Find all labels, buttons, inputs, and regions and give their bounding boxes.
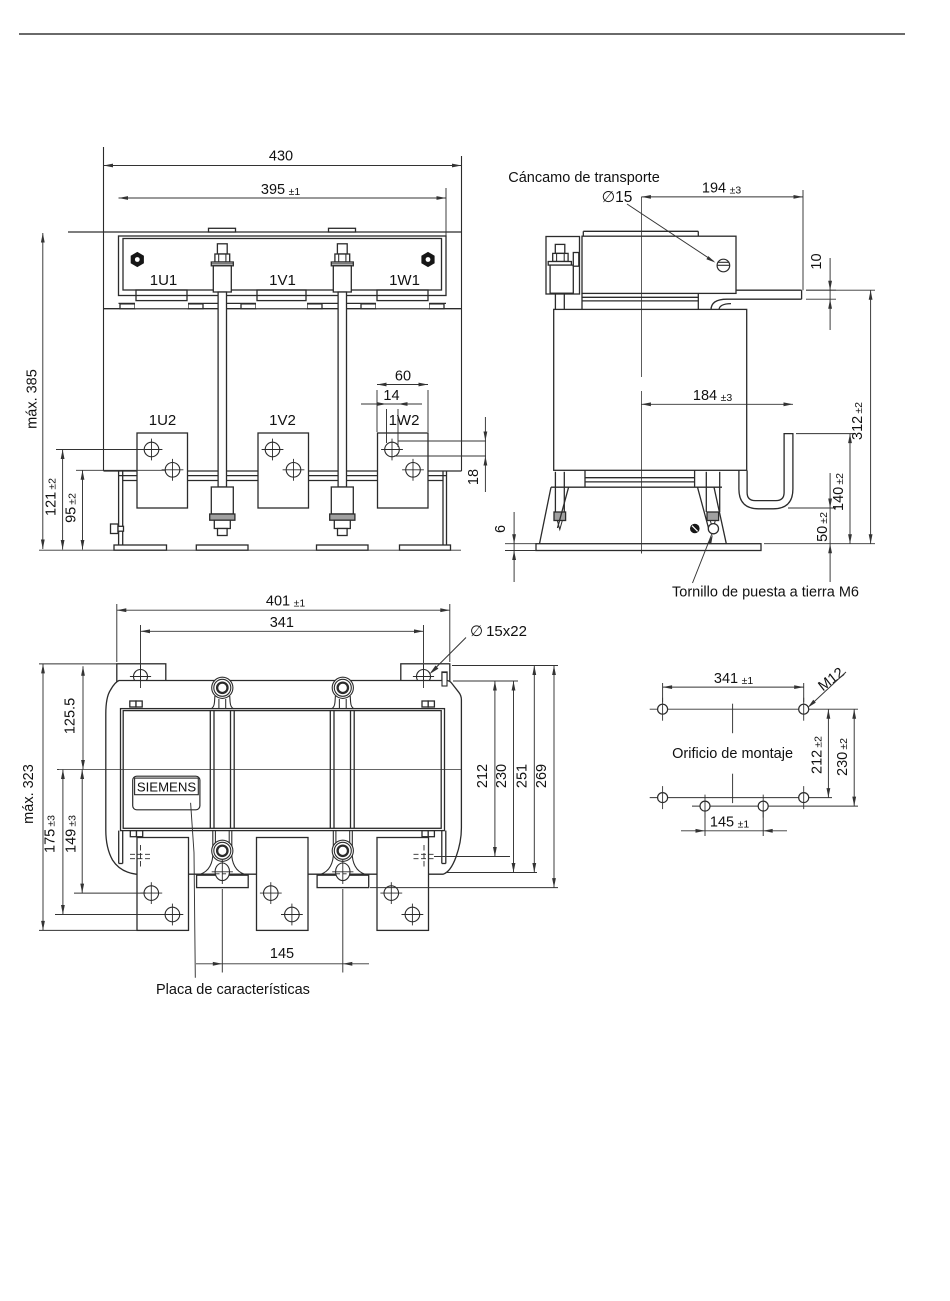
ground baseline bbox=[39, 549, 461, 551]
mount hole top-left bbox=[658, 698, 668, 721]
stud bolt 1 (between 1U1/1V1) bbox=[210, 244, 235, 536]
bracket top-right slot bbox=[413, 665, 434, 690]
mount dim 230 bbox=[835, 709, 856, 806]
svg-text:SIEMENS: SIEMENS bbox=[137, 780, 197, 795]
svg-text:269: 269 bbox=[534, 764, 550, 788]
side centerline bbox=[640, 197, 642, 554]
dim 395 extension right bbox=[445, 188, 447, 236]
label 1U2 bbox=[149, 412, 177, 429]
M12 leader bbox=[808, 672, 846, 708]
svg-text:±1: ±1 bbox=[289, 186, 301, 198]
svg-text:±1: ±1 bbox=[738, 819, 750, 831]
dim 10 bbox=[809, 253, 832, 330]
hex nut right bbox=[421, 252, 434, 267]
right clamp bracket bbox=[443, 471, 447, 545]
plate 1V2 hole 2 bbox=[283, 459, 305, 481]
terminal box bbox=[119, 236, 447, 296]
svg-text:∅15: ∅15 bbox=[602, 189, 633, 206]
clamp bolt top 2 bbox=[332, 677, 354, 708]
clamp side plate right (plan) bbox=[442, 831, 446, 864]
svg-text:Orificio de montaje: Orificio de montaje bbox=[672, 746, 793, 762]
side bottom spacer plate bbox=[585, 470, 695, 487]
svg-text:50 ±2: 50 ±2 bbox=[815, 512, 831, 542]
svg-text:121 ±2: 121 ±2 bbox=[44, 478, 60, 516]
side tie rods left bbox=[555, 294, 564, 512]
frame corner bolt top-right bbox=[422, 701, 434, 707]
side top raised strip bbox=[583, 231, 698, 236]
plate 1W2 hole 1 bbox=[381, 439, 403, 461]
dim max 323 bbox=[21, 664, 45, 931]
foot 3 bbox=[317, 545, 369, 550]
plan plate 1W2 hole 2 bbox=[402, 904, 424, 926]
label 1U1 bbox=[150, 272, 178, 289]
svg-text:125.5: 125.5 bbox=[63, 698, 79, 734]
body bottom line 2 bbox=[119, 475, 447, 477]
svg-text:1U2: 1U2 bbox=[149, 412, 177, 429]
svg-text:±1: ±1 bbox=[742, 675, 754, 687]
terminal plate 1V2 bbox=[258, 433, 309, 508]
label 1V1 bbox=[269, 272, 296, 289]
front top tab 2 bbox=[329, 228, 356, 232]
dim 230 plan bbox=[494, 681, 515, 873]
dim 125.5 bbox=[63, 666, 85, 769]
ext bracket top left bbox=[39, 663, 117, 665]
plan terminal plate 1U2 bbox=[137, 838, 189, 931]
side washer left bbox=[554, 512, 566, 530]
mount dim 341 bbox=[663, 671, 804, 689]
dim 140 ext bbox=[796, 433, 854, 435]
dim 145 ext bbox=[222, 889, 342, 973]
svg-text:Tornillo de puesta a tierra M6: Tornillo de puesta a tierra M6 bbox=[672, 585, 859, 601]
mount hole bottom-right bbox=[799, 786, 809, 809]
placa label bbox=[156, 982, 310, 998]
side coil body bbox=[554, 309, 747, 470]
plate 1V2 hole 1 bbox=[262, 439, 284, 461]
foot 2 bbox=[196, 545, 248, 550]
foot 4 bbox=[400, 545, 451, 550]
dim 401 ext bbox=[117, 604, 450, 662]
cancamo label bbox=[508, 170, 660, 186]
side stud nut bbox=[553, 253, 568, 261]
side stud cylinder bbox=[550, 265, 573, 293]
svg-text:145: 145 bbox=[270, 946, 294, 962]
dim 212 plan bbox=[475, 681, 497, 857]
slot leader bbox=[429, 638, 466, 675]
left clamp bracket bbox=[119, 471, 123, 545]
shelf line bbox=[119, 302, 447, 304]
side top spacer plate bbox=[582, 293, 698, 309]
mount dim 145 bbox=[681, 815, 787, 833]
bracket top-right tab bbox=[442, 672, 447, 681]
svg-text:140 ±2: 140 ±2 bbox=[831, 473, 847, 511]
mount hole middle-left bbox=[700, 795, 710, 818]
dim 60 bbox=[377, 369, 428, 387]
side top block bbox=[582, 236, 736, 293]
dim 121 bbox=[44, 450, 65, 550]
hidden slot bottom-right bbox=[414, 845, 435, 868]
dim max 385 bbox=[25, 233, 45, 549]
leader plan hole row 1 bbox=[74, 892, 146, 894]
ext baseline right bbox=[764, 543, 875, 545]
hidden slot bottom-left bbox=[130, 845, 151, 868]
ext right 230/251 bottom bbox=[446, 872, 537, 874]
frame outer bbox=[121, 709, 445, 831]
leader 18 top bbox=[398, 440, 486, 442]
dim 430 extension left bbox=[103, 147, 105, 471]
svg-text:10: 10 bbox=[809, 253, 825, 269]
svg-text:194: 194 bbox=[702, 181, 726, 197]
dim 50 bbox=[815, 473, 832, 582]
leader plan hole row 2 bbox=[55, 914, 164, 916]
dim 430 extension right bbox=[461, 156, 463, 471]
svg-text:212 ±2: 212 ±2 bbox=[810, 736, 826, 774]
mount top line bbox=[650, 708, 858, 710]
coil midline bbox=[59, 769, 462, 771]
mount dim 212 bbox=[810, 709, 831, 797]
placa leader bbox=[191, 803, 196, 978]
ext right 269 bottom bbox=[370, 887, 558, 889]
dim 312 bbox=[850, 290, 873, 544]
slot label bbox=[470, 623, 527, 640]
channel strip right bbox=[330, 711, 354, 829]
bracket top-right bbox=[401, 664, 450, 682]
svg-text:6: 6 bbox=[493, 525, 509, 533]
label 1W1 bbox=[389, 272, 420, 289]
label 1V2 bbox=[269, 412, 296, 429]
terminal strip 1U1 bbox=[120, 290, 203, 309]
dim 50 ext bbox=[788, 507, 836, 509]
svg-text:341: 341 bbox=[270, 615, 294, 631]
ext right 212/230 top bbox=[453, 680, 518, 682]
plan plate 1U2 hole 2 bbox=[162, 904, 184, 926]
clamp bolt top 1 bbox=[211, 677, 233, 708]
terminal plate 1U2 bbox=[137, 433, 188, 508]
svg-text:Cáncamo de transporte: Cáncamo de transporte bbox=[508, 170, 660, 186]
dim 60 ext bbox=[377, 390, 428, 432]
svg-text:230: 230 bbox=[494, 764, 510, 788]
frame inner bbox=[123, 711, 441, 829]
side washer right bbox=[707, 512, 719, 530]
svg-text:máx. 323: máx. 323 bbox=[21, 764, 37, 824]
svg-text:341: 341 bbox=[714, 671, 738, 687]
svg-text:∅ 15x22: ∅ 15x22 bbox=[470, 623, 527, 640]
body bottom line 3 bbox=[123, 480, 443, 482]
top busbar bbox=[711, 290, 802, 310]
mount hole bottom-left bbox=[658, 786, 668, 809]
ground screw filled bbox=[690, 524, 700, 534]
frame corner bolt bottom-left bbox=[130, 831, 142, 837]
ext right 251/269 top bbox=[452, 665, 558, 667]
dim 194 bbox=[641, 181, 803, 199]
leader hole row 1 bbox=[56, 449, 145, 451]
dim 401 bbox=[117, 594, 450, 613]
dim 140 bbox=[831, 434, 852, 544]
dim 18 bbox=[466, 417, 487, 492]
svg-text:18: 18 bbox=[466, 469, 482, 485]
mount dim 341 ext bbox=[663, 683, 804, 702]
terminal strip 1W1 bbox=[361, 290, 444, 309]
dim 10 ext bbox=[806, 290, 836, 299]
dim 341 bbox=[141, 615, 424, 633]
svg-text:230 ±2: 230 ±2 bbox=[835, 738, 851, 776]
plan terminal plate 1W2 bbox=[377, 838, 429, 931]
terminal plate 1W2 bbox=[378, 433, 429, 508]
cancamo leader bbox=[627, 204, 716, 263]
clamp bolt bottom 1 bbox=[197, 831, 249, 888]
svg-text:14: 14 bbox=[383, 388, 399, 404]
plan plate 1V2 hole 1 bbox=[260, 882, 282, 904]
frame corner bolt bottom-right bbox=[422, 831, 434, 837]
dim 175 bbox=[43, 770, 65, 915]
ref line left bbox=[57, 769, 59, 771]
svg-text:1W2: 1W2 bbox=[389, 412, 420, 429]
dim 95 bbox=[64, 470, 85, 549]
bracket tab redraw bbox=[442, 673, 447, 687]
side stud flange bbox=[548, 262, 571, 266]
plate 1U2 hole 1 bbox=[141, 439, 163, 461]
svg-text:60: 60 bbox=[395, 369, 411, 385]
dim 145 bbox=[196, 946, 369, 966]
leader hole row 2 bbox=[76, 469, 166, 471]
label 1W2 bbox=[389, 412, 420, 429]
dim 251 plan bbox=[515, 666, 537, 873]
plate 1U2 hole 2 bbox=[162, 459, 184, 481]
side tie rods right bbox=[706, 472, 719, 512]
dim 6 bbox=[493, 512, 516, 582]
svg-text:95 ±2: 95 ±2 bbox=[64, 493, 80, 523]
svg-text:máx. 385: máx. 385 bbox=[25, 369, 41, 429]
dim 184 bbox=[641, 388, 793, 406]
top rule bbox=[19, 33, 905, 35]
front top plate line bbox=[68, 231, 462, 233]
svg-text:1U1: 1U1 bbox=[150, 272, 178, 289]
main body outline bbox=[104, 309, 462, 471]
channel strip left bbox=[210, 711, 234, 829]
bracket slot ticks left bbox=[130, 665, 151, 689]
bracket slot ticks right bbox=[413, 665, 434, 689]
frame corner bolt top-left bbox=[130, 701, 142, 707]
side base plate bbox=[536, 544, 761, 551]
clamp bolt bottom 2 bbox=[317, 831, 369, 888]
dim 269 plan bbox=[534, 666, 556, 888]
shell outline bbox=[106, 681, 462, 875]
centerline through base bbox=[640, 544, 642, 554]
earth screw side bbox=[111, 524, 124, 534]
svg-text:145: 145 bbox=[710, 815, 734, 831]
svg-text:1V2: 1V2 bbox=[269, 412, 296, 429]
side stud clip bbox=[573, 253, 579, 267]
stud bolt 2 (between 1V1/1W1) bbox=[330, 244, 355, 536]
mount center tick bottom bbox=[732, 774, 734, 803]
svg-text:149 ±3: 149 ±3 bbox=[64, 815, 80, 853]
dim max323 bottom ext bbox=[39, 929, 137, 931]
svg-text:430: 430 bbox=[269, 149, 293, 165]
svg-text:401: 401 bbox=[266, 594, 290, 610]
bracket top-left slot bbox=[130, 665, 151, 690]
svg-text:Placa de características: Placa de características bbox=[156, 982, 310, 998]
hex nut left bbox=[131, 252, 144, 267]
dim 6 ext bbox=[505, 544, 536, 551]
svg-text:±1: ±1 bbox=[294, 598, 306, 610]
svg-text:395: 395 bbox=[261, 182, 285, 198]
tornillo leader bbox=[693, 534, 713, 583]
side stud square bbox=[555, 244, 565, 253]
dim 395 bbox=[119, 182, 447, 200]
siemens plate bbox=[133, 776, 200, 810]
dim 194 ext bbox=[802, 190, 804, 290]
svg-text:184: 184 bbox=[693, 388, 717, 404]
mount bottom line bbox=[650, 797, 832, 799]
bracket top-left bbox=[117, 664, 166, 682]
svg-text:175 ±3: 175 ±3 bbox=[43, 815, 59, 853]
dim 430 bbox=[104, 149, 462, 168]
front top tab 1 bbox=[209, 228, 236, 232]
svg-text:251: 251 bbox=[515, 764, 531, 788]
svg-text:1V1: 1V1 bbox=[269, 272, 296, 289]
svg-text:±3: ±3 bbox=[730, 185, 742, 197]
svg-text:±3: ±3 bbox=[721, 392, 733, 404]
svg-text:312 ±2: 312 ±2 bbox=[850, 402, 866, 440]
mount center tick top bbox=[732, 704, 734, 734]
cancamo diameter label bbox=[602, 189, 633, 206]
svg-text:212: 212 bbox=[475, 764, 491, 788]
mount middle line bbox=[692, 805, 858, 807]
leader 18 bottom bbox=[394, 455, 486, 457]
eyebolt head bbox=[717, 259, 730, 272]
plan plate 1W2 hole 1 bbox=[380, 882, 402, 904]
ground screw open bbox=[708, 524, 718, 534]
plan plate 1V2 hole 2 bbox=[281, 904, 303, 926]
dim 341 ext bbox=[141, 625, 424, 665]
dim 149 bbox=[64, 770, 85, 894]
mount dim 145 ext bbox=[705, 810, 763, 836]
side left terminal box bbox=[546, 237, 580, 295]
mount hole middle-right bbox=[758, 795, 768, 818]
orificio label bbox=[672, 746, 793, 762]
plan plate 1U2 hole 1 bbox=[140, 882, 162, 904]
tornillo label bbox=[672, 585, 859, 601]
plan terminal plate 1V2 bbox=[257, 838, 309, 931]
dim 14 ext bbox=[387, 409, 399, 447]
foot 1 bbox=[114, 545, 167, 550]
dim 14 bbox=[361, 388, 422, 406]
svg-text:1W1: 1W1 bbox=[389, 272, 420, 289]
M12 label bbox=[815, 665, 847, 695]
side base trapezoid bbox=[540, 487, 727, 544]
lower U busbar bbox=[739, 434, 793, 509]
ext right 212 bottom bbox=[434, 856, 510, 858]
clamp side plate left (plan) bbox=[119, 831, 123, 864]
dim 312 ext top bbox=[806, 289, 875, 291]
plate 1W2 hole 2 bbox=[402, 459, 424, 481]
mount hole top-right bbox=[799, 698, 809, 721]
terminal strip 1V1 bbox=[241, 290, 322, 309]
ext line max385 top bbox=[68, 231, 104, 233]
